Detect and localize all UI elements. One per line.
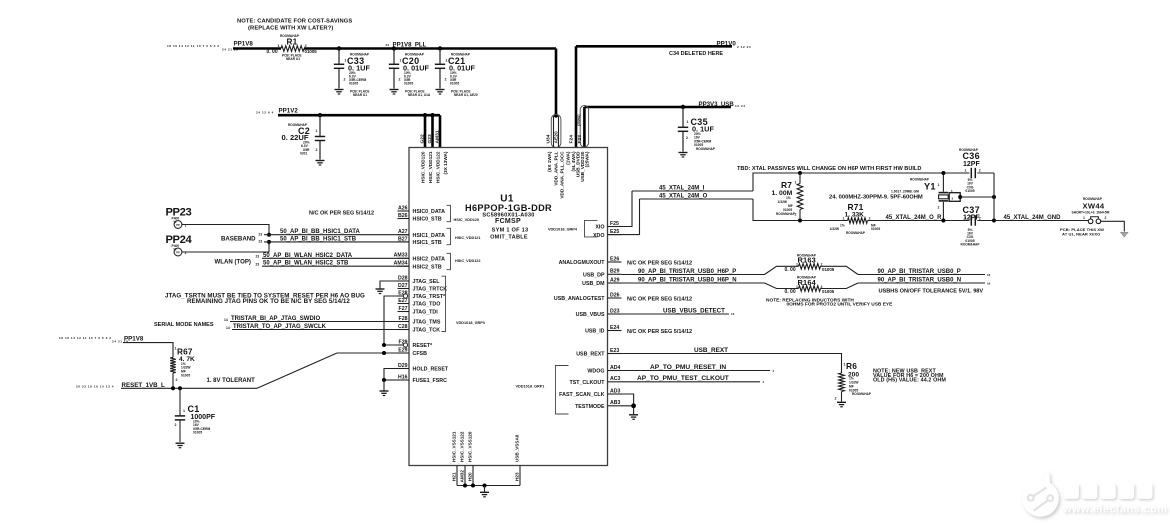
svg-text:XDO: XDO xyxy=(593,233,604,239)
svg-text:1.6017_20MB_GM: 1.6017_20MB_GM xyxy=(891,189,919,193)
wire PP1V0 vertical to F24 xyxy=(575,46,578,147)
svg-text:ROOM&HAP: ROOM&HAP xyxy=(1083,197,1103,201)
wire XO pin to 45_XTAL_24M_O xyxy=(608,199,640,235)
svg-text:REMAINING JTAG PINS OK TO BE N: REMAINING JTAG PINS OK TO BE N/C BY SEG … xyxy=(187,298,350,305)
svg-text:HSIC1_STB: HSIC1_STB xyxy=(413,240,442,246)
svg-text:JTAG_TRST*: JTAG_TRST* xyxy=(413,294,447,300)
wire xtal right vertical xyxy=(993,173,995,221)
U1 pin AC3 TST_CLKOUT xyxy=(608,381,622,383)
net 90_AP_BI_TRISTAR_USB0_H6P_N xyxy=(622,282,765,284)
svg-text:USB_VSSA0: USB_VSSA0 xyxy=(515,434,520,462)
svg-text:18 16 14 12 11 10 7 6 5 3 2: 18 16 14 12 11 10 7 6 5 3 2 xyxy=(167,44,220,48)
svg-text:USB_REXT: USB_REXT xyxy=(694,347,728,354)
ground C20 xyxy=(390,89,399,91)
U1 pin H23 USB_VSSA0 xyxy=(519,466,521,486)
svg-text:ROOM&HAP: ROOM&HAP xyxy=(776,212,796,216)
svg-text:SHORT+10L+0. 1NH+5M: SHORT+10L+0. 1NH+5M xyxy=(1072,211,1110,215)
svg-text:01005: 01005 xyxy=(965,189,974,193)
U1 pin D23 USB_VBUS xyxy=(608,313,622,315)
svg-text:C34 DELETED HERE: C34 DELETED HERE xyxy=(669,51,723,57)
net 45_XTAL_24M_I xyxy=(632,190,753,192)
U1 pin AD4 WDOG xyxy=(608,370,622,372)
svg-text:(3X 13WA): (3X 13WA) xyxy=(443,151,448,174)
pin group bracket HSIC2 + HSIC_VDD122 xyxy=(447,253,451,269)
svg-text:01005: 01005 xyxy=(450,82,459,86)
ground C33 xyxy=(335,89,344,91)
svg-text:(1WA): (1WA) xyxy=(566,151,571,165)
IC U1 body xyxy=(409,148,608,466)
svg-text:JTAG_TMS: JTAG_TMS xyxy=(413,320,441,326)
wire PP1V8 to R67 xyxy=(123,343,173,358)
svg-text:01005: 01005 xyxy=(404,82,413,86)
svg-text:NEAR U1: NEAR U1 xyxy=(353,93,367,97)
svg-text:ROOM&HAP: ROOM&HAP xyxy=(852,392,872,396)
wire AM31 vertical xyxy=(439,115,442,147)
svg-text:USB_REXT: USB_REXT xyxy=(576,352,605,358)
svg-text:WLAN (TOP): WLAN (TOP) xyxy=(215,259,251,266)
svg-text:VDD1018_GRP4: VDD1018_GRP4 xyxy=(548,227,578,231)
wire HOLD_RESET down xyxy=(384,369,398,381)
svg-text:20 22 19 16 15 13 4: 20 22 19 16 15 13 4 xyxy=(76,384,114,388)
U1 pin AD3 FAST_SCAN_CLK xyxy=(608,393,622,395)
svg-text:PP1V8_PLL: PP1V8_PLL xyxy=(393,41,427,48)
U1 pin D28 JTAG_SEL xyxy=(398,280,410,282)
svg-text:1: 1 xyxy=(687,120,689,124)
svg-text:(25WA): (25WA) xyxy=(577,115,581,127)
wire RESET* net xyxy=(384,344,403,346)
svg-text:CFSB: CFSB xyxy=(413,351,428,357)
ground C21 xyxy=(436,89,445,91)
U1 pin A27 HSIC1_DATA xyxy=(398,234,410,236)
svg-text:TESTMODE: TESTMODE xyxy=(575,404,605,410)
svg-text:E23: E23 xyxy=(610,348,619,354)
svg-text:2: 2 xyxy=(686,136,688,140)
net USB_REXT wire xyxy=(622,354,842,374)
svg-text:XIO: XIO xyxy=(595,225,604,231)
svg-text:(6X 1WA): (6X 1WA) xyxy=(547,151,552,172)
wire FUSE1_FSRC xyxy=(384,379,398,381)
svg-text:(REPLACE WITH XW LATER?): (REPLACE WITH XW LATER?) xyxy=(248,26,333,32)
svg-text:01005: 01005 xyxy=(181,374,190,378)
svg-text:VDD1018_GRP1: VDD1018_GRP1 xyxy=(516,385,545,389)
svg-text:HSIC_VSS120: HSIC_VSS120 xyxy=(468,431,473,462)
svg-text:R163: R163 xyxy=(798,256,816,265)
capacitor C1 xyxy=(179,388,181,416)
svg-text:2: 2 xyxy=(175,423,177,427)
capacitor C20 xyxy=(392,46,396,50)
wire CFSB net xyxy=(337,352,409,354)
svg-text:1/32W: 1/32W xyxy=(778,200,788,204)
net USB_VBUS_DETECT xyxy=(622,313,730,315)
U1 pin A29 USB_DM xyxy=(608,282,622,284)
svg-text:NEAR U1, U1A: NEAR U1, U1A xyxy=(408,93,431,97)
svg-text:HSIC0_STB: HSIC0_STB xyxy=(413,217,442,223)
U1 pin F25 XIO xyxy=(608,226,622,228)
svg-text:F27: F27 xyxy=(399,306,408,312)
U1 pin E28 JTAG_TRST* xyxy=(398,295,404,297)
svg-text:01005: 01005 xyxy=(822,267,835,272)
svg-text:24 12 6 4: 24 12 6 4 xyxy=(256,110,274,114)
svg-text:2: 2 xyxy=(979,216,981,220)
svg-text:HSIC_VSS122: HSIC_VSS122 xyxy=(460,431,465,462)
svg-text:R1: R1 xyxy=(287,37,298,46)
wire TESTMODE to ground xyxy=(622,406,634,415)
wire G22 vertical xyxy=(423,113,427,117)
svg-text:50_AP_BI_WLAN_HSIC2_STB: 50_AP_BI_WLAN_HSIC2_STB xyxy=(263,261,349,267)
svg-text:01005: 01005 xyxy=(305,49,318,54)
svg-text:1: 1 xyxy=(1083,216,1085,220)
svg-text:1: 1 xyxy=(965,168,967,172)
svg-text:E27: E27 xyxy=(398,298,407,304)
junction PP1V8_PLL at pill xyxy=(554,113,558,117)
svg-text:2: 2 xyxy=(869,216,871,220)
svg-text:TRISTAR_TO_AP_JTAG_SWCLK: TRISTAR_TO_AP_JTAG_SWCLK xyxy=(233,324,327,330)
wire PP1V8_PLL vertical to U34/AE20 xyxy=(555,49,558,116)
svg-text:13: 13 xyxy=(731,312,735,316)
svg-text:2: 2 xyxy=(979,168,981,172)
pin group bracket HSIC1 + HSIC_VDD121 xyxy=(447,228,451,244)
svg-text:AT U1, NEAR XI/XO: AT U1, NEAR XI/XO xyxy=(1062,232,1100,237)
wire PP23 to HSIC1_DATA xyxy=(182,225,269,235)
svg-text:2: 2 xyxy=(399,78,401,82)
resistor R67 xyxy=(170,357,176,373)
ground TESTMODE xyxy=(629,414,638,416)
svg-text:1: 1 xyxy=(183,409,185,413)
svg-text:1: 1 xyxy=(796,285,798,289)
svg-text:NEAR U1, AE20: NEAR U1, AE20 xyxy=(454,93,478,97)
wire PP1V8 to R1 xyxy=(233,47,281,50)
wire crystal case to gnd net xyxy=(960,196,994,198)
svg-text:D23: D23 xyxy=(610,308,620,314)
ground chassis right xyxy=(1121,232,1128,237)
svg-text:VDD_ANA_PLL_OCC: VDD_ANA_PLL_OCC xyxy=(560,151,565,199)
svg-text:90_AP_BI_TRISTAR_USB0_H6P_P: 90_AP_BI_TRISTAR_USB0_H6P_P xyxy=(638,269,736,275)
svg-text:23: 23 xyxy=(256,262,260,266)
U1 pin F29 RESET* xyxy=(398,344,404,346)
U1 pin F27 JTAG_TDI xyxy=(398,311,410,313)
watermark elecfans logo xyxy=(1022,471,1059,517)
svg-text:RESET*: RESET* xyxy=(413,343,434,349)
wire JTAG_TRST* to reset net xyxy=(384,296,403,345)
net 45_XTAL_24M_O xyxy=(640,198,754,200)
capacitor C21 xyxy=(438,46,442,50)
svg-text:HSIC_VDD121: HSIC_VDD121 xyxy=(455,236,481,240)
svg-text:HSIC_VDD122: HSIC_VDD122 xyxy=(436,151,441,183)
pin group bracket WDOG..TESTMODE + VDD1018_GRP1 xyxy=(556,366,569,415)
svg-text:Y1: Y1 xyxy=(924,181,936,191)
wire to ground VSS xyxy=(484,486,486,492)
svg-text:USB_VBUS_DETECT: USB_VBUS_DETECT xyxy=(663,307,725,314)
svg-text:16: 16 xyxy=(987,273,991,277)
wire xtal top xyxy=(753,173,970,191)
wire RESET_1V8_L xyxy=(121,387,257,389)
svg-text:JTAG_SEL: JTAG_SEL xyxy=(413,279,441,285)
U1 pin B29 USB_DP xyxy=(608,273,622,275)
svg-text:14: 14 xyxy=(224,318,228,322)
svg-text:HSIC_VDD120: HSIC_VDD120 xyxy=(454,218,480,222)
net AP_TO_PMU_RESET_IN xyxy=(622,370,771,372)
U1 pin B26 HSIC0_STB xyxy=(398,218,410,220)
svg-text:4: 4 xyxy=(763,380,765,384)
net TRISTAR_TO_AP_JTAG_SWCLK xyxy=(232,329,398,331)
svg-text:F24: F24 xyxy=(569,135,575,144)
svg-text:AC3: AC3 xyxy=(610,376,620,382)
svg-text:1: 1 xyxy=(843,216,845,220)
svg-text:ROOM&HAP: ROOM&HAP xyxy=(696,147,716,151)
ground C35 xyxy=(679,152,688,154)
resistor R164 xyxy=(765,283,799,289)
svg-text:2: 2 xyxy=(938,206,940,210)
svg-text:F28: F28 xyxy=(399,316,408,322)
wire PP1V8_PLL rail xyxy=(304,47,556,50)
wire PP3V3_USB vertical to F23 xyxy=(583,107,586,148)
U1 pin C28 JTAG_TCK xyxy=(398,329,410,331)
svg-text:HSIC_VDD121: HSIC_VDD121 xyxy=(428,151,433,183)
U1 pin E27 JTAG_TDO xyxy=(398,303,410,305)
ground R6 xyxy=(837,401,846,403)
U1 pin E29 CFSB xyxy=(398,352,410,354)
net TRISTAR_BI_AP_JTAG_SWDIO xyxy=(230,321,398,323)
wire PP1V0 xyxy=(576,45,732,48)
svg-text:C36: C36 xyxy=(963,151,980,161)
svg-text:1%: 1% xyxy=(840,223,845,227)
wire PP24 to HSIC1_STB xyxy=(182,242,269,252)
svg-text:0. 00: 0. 00 xyxy=(785,289,796,295)
wire FAST_SCAN_CLK down xyxy=(622,394,634,406)
svg-text:18 16 14 12 11 10 7 6 5 3 2: 18 16 14 12 11 10 7 6 5 3 2 xyxy=(59,336,112,340)
wire XI pin to 45_XTAL_24M_I xyxy=(608,191,633,227)
svg-text:23: 23 xyxy=(259,233,263,237)
svg-text:90_AP_BI_TRISTAR_USB0_H6P_N: 90_AP_BI_TRISTAR_USB0_H6P_N xyxy=(638,277,737,283)
svg-text:HSIC_VDD122: HSIC_VDD122 xyxy=(455,259,481,263)
svg-text:ROOM&HAP: ROOM&HAP xyxy=(961,243,981,247)
U1 pin D29 HOLD_RESET xyxy=(398,368,410,370)
pin group bracket HSIC0 + HSIC_VDD120 xyxy=(447,205,451,221)
svg-text:AD4: AD4 xyxy=(610,365,620,371)
svg-text:45_XTAL_24M_O_R: 45_XTAL_24M_O_R xyxy=(886,215,943,221)
svg-text:01005: 01005 xyxy=(349,82,358,86)
svg-text:USB_VBUS: USB_VBUS xyxy=(576,312,605,318)
U1 pin H16 FUSE1_FSRC xyxy=(398,379,410,381)
svg-text:B29: B29 xyxy=(610,269,620,275)
svg-text:01005: 01005 xyxy=(822,289,835,294)
svg-text:HSIC_VDD120: HSIC_VDD120 xyxy=(421,151,426,183)
svg-text:HSIC2_STB: HSIC2_STB xyxy=(413,264,442,270)
U1 pin H20 HSIC_VSS120 xyxy=(472,466,474,486)
svg-text:D29: D29 xyxy=(398,363,408,369)
svg-text:G22: G22 xyxy=(420,134,426,144)
ground VSS xyxy=(480,491,489,493)
svg-text:1: 1 xyxy=(965,216,967,220)
svg-text:AB3: AB3 xyxy=(610,400,620,406)
svg-text:N/C OK PER SEG 5/14/12: N/C OK PER SEG 5/14/12 xyxy=(627,297,692,303)
svg-text:USBHS ON/OFF TOLERANCE 5V/1: USBHS ON/OFF TOLERANCE 5V/1. 98V xyxy=(879,289,984,295)
svg-text:1. 33K: 1. 33K xyxy=(845,212,865,219)
wire R67 to reset net xyxy=(172,373,174,388)
svg-text:C28: C28 xyxy=(398,324,408,330)
svg-text:NEAR U1: NEAR U1 xyxy=(286,57,300,61)
svg-text:VDD_ANA_PLL: VDD_ANA_PLL xyxy=(554,151,559,185)
svg-text:1: 1 xyxy=(938,183,940,187)
svg-text:H21: H21 xyxy=(452,472,457,481)
U1 pin D27 JTAG_TRTCK xyxy=(398,288,410,290)
wire PP1V2 rail xyxy=(278,114,440,117)
svg-text:XW44: XW44 xyxy=(1083,202,1105,211)
pin group bracket XIO/XDO + VDD1018_GRP4 xyxy=(585,220,598,237)
svg-text:(25WA): (25WA) xyxy=(585,151,590,167)
wire C37 to right vertical xyxy=(977,220,994,222)
U1 pin E24 USB_ID xyxy=(608,330,622,332)
svg-text:D27: D27 xyxy=(398,283,408,289)
svg-text:HOLD_RESET: HOLD_RESET xyxy=(413,367,449,373)
svg-text:USB_DP: USB_DP xyxy=(583,273,605,279)
svg-text:12 24: 12 24 xyxy=(735,104,746,108)
svg-text:JTAG_TRTCK: JTAG_TRTCK xyxy=(413,287,448,293)
U1 pin F28 JTAG_TMS xyxy=(398,321,410,323)
svg-text:0. 00: 0. 00 xyxy=(785,267,796,273)
svg-text:HSIC1_DATA: HSIC1_DATA xyxy=(413,233,446,239)
svg-text:N/C OK PER SEG 5/14/12: N/C OK PER SEG 5/14/12 xyxy=(627,260,692,266)
svg-text:16: 16 xyxy=(987,282,991,286)
wire pin AE20 xyxy=(558,116,560,148)
svg-text:0. 00: 0. 00 xyxy=(267,49,278,55)
svg-text:TST_CLKOUT: TST_CLKOUT xyxy=(569,380,605,386)
resistor R6 xyxy=(839,373,845,392)
svg-text:TRISTAR_BI_AP_JTAG_SWDIO: TRISTAR_BI_AP_JTAG_SWDIO xyxy=(231,316,320,322)
svg-text:E26: E26 xyxy=(610,256,619,262)
svg-text:WDOG: WDOG xyxy=(587,369,604,375)
svg-text:JTAG_TCK: JTAG_TCK xyxy=(413,328,441,334)
svg-text:PP: PP xyxy=(176,223,180,227)
pin group bracket JTAG + VDD1018_GRP3 xyxy=(442,276,446,331)
U1 pin AB3 TESTMODE xyxy=(608,405,622,407)
net 50_AP_BI_WLAN_HSIC2_DATA xyxy=(262,257,409,259)
svg-text:H16: H16 xyxy=(398,374,408,380)
svg-text:1: 1 xyxy=(796,263,798,267)
svg-text:D26: D26 xyxy=(610,292,620,298)
svg-text:AP_TO_PMU_RESET_IN: AP_TO_PMU_RESET_IN xyxy=(650,364,726,371)
U1 pin AM32 HSIC_VSS122 xyxy=(464,466,466,486)
svg-text:R67: R67 xyxy=(177,348,193,357)
svg-text:90_AP_BI_TRISTAR_USB0_N: 90_AP_BI_TRISTAR_USB0_N xyxy=(878,277,962,283)
U1 pin B27 HSIC1_STB xyxy=(398,241,410,243)
svg-text:HSIC0_DATA: HSIC0_DATA xyxy=(413,209,446,215)
svg-text:www.elecfans.com: www.elecfans.com xyxy=(1062,504,1167,516)
wire diagonal reset to CFSB xyxy=(257,353,337,388)
net 50_AP_BI_BB_HSIC1_DATA xyxy=(267,233,271,237)
capacitor C33 xyxy=(337,46,341,50)
svg-text:R6: R6 xyxy=(846,361,857,371)
svg-text:OLD (H5) VALUE: 44.2 OHM: OLD (H5) VALUE: 44.2 OHM xyxy=(873,378,946,384)
svg-text:2: 2 xyxy=(316,148,318,152)
svg-text:H20: H20 xyxy=(468,472,473,481)
U1 pin AM34 HSIC2_STB xyxy=(398,265,410,267)
U1 pin AM33 HSIC2_DATA xyxy=(398,257,410,259)
svg-text:PP1V8: PP1V8 xyxy=(234,40,254,47)
svg-text:PP: PP xyxy=(176,251,180,255)
net 45_XTAL_24M_GND xyxy=(994,220,1088,222)
svg-text:A29: A29 xyxy=(610,277,620,283)
U1 pin E25 XDO xyxy=(608,234,622,236)
svg-text:USB_ANALOGTEST: USB_ANALOGTEST xyxy=(554,296,605,302)
U1 pin D26 USB_ANALOGTEST xyxy=(608,297,622,299)
svg-text:01005: 01005 xyxy=(871,227,880,231)
svg-text:FAST_SCAN_CLK: FAST_SCAN_CLK xyxy=(559,392,604,398)
svg-text:1: 1 xyxy=(316,129,318,133)
svg-text:50_AP_BI_WLAN_HSIC2_DATA: 50_AP_BI_WLAN_HSIC2_DATA xyxy=(263,253,353,259)
pin group pill U34 AE20 xyxy=(551,115,561,148)
capacitor C35 xyxy=(681,105,685,109)
svg-text:2: 2 xyxy=(795,213,797,217)
svg-text:PP1V8: PP1V8 xyxy=(124,335,144,342)
svg-text:AM31: AM31 xyxy=(435,130,441,143)
svg-text:ROOM&HAP: ROOM&HAP xyxy=(846,231,866,235)
svg-text:1: 1 xyxy=(795,181,797,185)
svg-text:1: 1 xyxy=(278,44,280,48)
svg-text:AM32: AM32 xyxy=(460,470,465,483)
net 90_AP_BI_TRISTAR_USB0_H6P_P xyxy=(622,274,765,276)
svg-text:B26: B26 xyxy=(398,213,408,219)
net 90_AP_BI_TRISTAR_USB0_N xyxy=(858,282,985,284)
svg-text:1. 8V TOLERANT: 1. 8V TOLERANT xyxy=(207,378,256,384)
svg-text:C1: C1 xyxy=(188,404,200,414)
pin group pill F23 xyxy=(580,106,588,148)
svg-text:PP1V2: PP1V2 xyxy=(279,107,299,114)
resistor R163 xyxy=(765,266,799,274)
svg-text:2: 2 xyxy=(835,397,837,401)
wire pin U34 xyxy=(553,116,555,148)
svg-text:50_AP_BI_BB_HSIC1_DATA: 50_AP_BI_BB_HSIC1_DATA xyxy=(280,229,360,235)
svg-text:0OHMS FOR PROTO2 UNTIL VER: 0OHMS FOR PROTO2 UNTIL VERIFY USB EYE xyxy=(787,302,894,308)
svg-text:TBD: XTAL PASSIVES WILL CH: TBD: XTAL PASSIVES WILL CHANGE ON H6P WI… xyxy=(737,166,921,172)
svg-text:AE20: AE20 xyxy=(554,131,560,144)
svg-text:R164: R164 xyxy=(798,278,817,287)
svg-text:01005: 01005 xyxy=(193,431,202,435)
svg-text:F23: F23 xyxy=(577,135,583,144)
svg-text:SYM 1 OF 13: SYM 1 OF 13 xyxy=(492,227,529,233)
svg-text:G23: G23 xyxy=(427,134,433,144)
svg-text:HSIC2_DATA: HSIC2_DATA xyxy=(413,257,446,263)
svg-text:HSIC_VSS121: HSIC_VSS121 xyxy=(452,431,457,462)
svg-text:24. 000MHZ-30PPM-9. 5PF-60OHM: 24. 000MHZ-30PPM-9. 5PF-60OHM xyxy=(829,194,923,200)
svg-text:NOTE: CANDIDATE FOR COST-SA: NOTE: CANDIDATE FOR COST-SAVINGS xyxy=(237,19,352,25)
svg-text:2 12 24: 2 12 24 xyxy=(737,45,751,49)
svg-text:50_AP_BI_BB_HSIC1_STB: 50_AP_BI_BB_HSIC1_STB xyxy=(280,237,357,243)
svg-text:FCMSP: FCMSP xyxy=(495,218,521,225)
svg-text:N/C OK PER SEG 5/14/12: N/C OK PER SEG 5/14/12 xyxy=(627,329,692,335)
resistor R7 xyxy=(798,171,802,175)
watermark chinese text xyxy=(1064,484,1153,499)
svg-text:45_XTAL_24M_O: 45_XTAL_24M_O xyxy=(659,193,708,199)
svg-text:ROOM&HAP: ROOM&HAP xyxy=(959,148,979,152)
resistor R71 xyxy=(848,218,868,224)
svg-text:BASEBAND: BASEBAND xyxy=(221,235,256,242)
svg-text:USB_DM: USB_DM xyxy=(582,281,605,287)
ground C1 xyxy=(176,442,185,444)
svg-text:24: 24 xyxy=(386,43,390,47)
svg-text:OMIT_TABLE: OMIT_TABLE xyxy=(490,235,528,241)
svg-text:12PF: 12PF xyxy=(963,161,980,168)
svg-text:R7: R7 xyxy=(781,180,792,190)
svg-text:2: 2 xyxy=(1105,216,1107,220)
svg-text:45_XTAL_24M_I: 45_XTAL_24M_I xyxy=(659,185,705,191)
svg-text:N/C OK PER SEG 5/14/12: N/C OK PER SEG 5/14/12 xyxy=(309,211,374,217)
wire xtal bottom entry xyxy=(753,199,848,221)
wire C36 to right vertical xyxy=(977,172,994,174)
wire VSS bus xyxy=(457,485,520,487)
svg-text:1/32W: 1/32W xyxy=(830,227,840,231)
crystal Y1 case pins xyxy=(949,193,960,202)
